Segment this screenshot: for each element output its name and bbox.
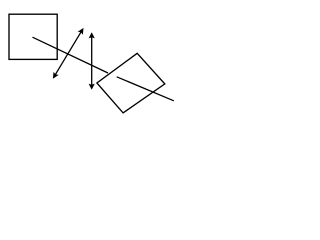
light ray: incident segment (from centre of polarizer to analyzer face): [33, 37, 109, 73]
light ray: transmitted segment (inside and beyond analyzer): [117, 77, 174, 101]
tilted double-headed polarization arrow (~31 deg from vertical): [53, 28, 84, 79]
vertical double-headed polarization arrow: [89, 32, 95, 90]
polarizer square (axis-aligned): [9, 14, 57, 59]
analyzer square (rotated ~36 deg): [97, 53, 165, 113]
